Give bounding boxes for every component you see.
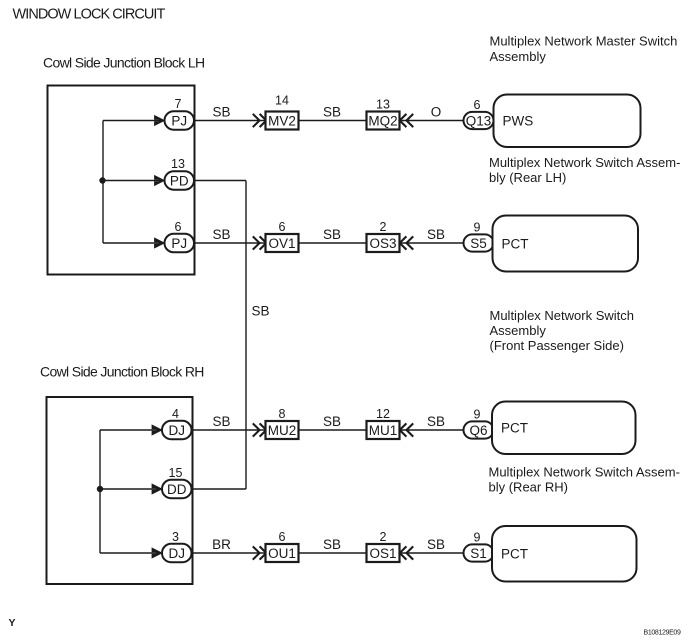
svg-text:14: 14 (275, 94, 289, 108)
junction block RH outline (47, 397, 193, 584)
svg-text:Multiplex Network Master Switc: Multiplex Network Master Switch (490, 34, 678, 49)
svg-text:PD: PD (170, 173, 189, 188)
label: Multiplex Network Switch Assembly (Rear RH) (489, 464, 680, 494)
wire: row 7 segment between inline connectors (299, 120, 367, 122)
wire: LH internal vertical bus (102, 121, 104, 244)
svg-text:Q6: Q6 (469, 423, 487, 438)
svg-text:SB: SB (212, 105, 230, 120)
wire: PD13 to DD15 vertical run (245, 181, 247, 490)
node: RH bus junction dot (97, 486, 103, 492)
wire: PD13 to DD15 horizontal (lower) (193, 488, 247, 490)
wire: row 3 segment oval to first inline connector (191, 552, 266, 554)
connector chevrons into MV2 (253, 114, 266, 127)
wire: RH stub to DJ pin 4 (100, 429, 158, 431)
connector DD pin 15 (junction block cavity) (162, 466, 192, 499)
svg-text:OV1: OV1 (268, 236, 295, 251)
svg-text:13: 13 (376, 98, 390, 112)
connector OS1 pin 2 (367, 530, 400, 562)
svg-text:PCT: PCT (502, 236, 529, 251)
svg-text:S1: S1 (470, 546, 487, 561)
device block PCT (492, 402, 636, 455)
wire: LH stub to PJ pin 7 (103, 120, 160, 122)
svg-text:S5: S5 (470, 236, 487, 251)
connector arrow into PJ pin 6 (154, 237, 165, 248)
svg-text:15: 15 (169, 466, 183, 480)
svg-text:WINDOW LOCK CIRCUIT: WINDOW LOCK CIRCUIT (13, 6, 166, 22)
connector arrow into DJ pin 4 (152, 424, 163, 435)
svg-text:bly (Rear RH): bly (Rear RH) (489, 479, 568, 494)
connector chevrons into OV1 (253, 236, 266, 249)
svg-text:OS1: OS1 (369, 546, 396, 561)
wire: PD13 to DD15 horizontal (upper) (193, 180, 246, 182)
svg-text:MU1: MU1 (369, 423, 398, 438)
device block PWS (494, 95, 641, 148)
connector MV2 pin 14 (266, 94, 299, 130)
wire: RH stub to DJ pin 3 (100, 552, 158, 554)
junction block LH outline (48, 86, 195, 275)
connector chevrons out of MU1 (400, 423, 414, 436)
device block PCT (493, 216, 639, 272)
svg-text:SB: SB (323, 227, 341, 242)
svg-text:6: 6 (175, 220, 182, 234)
svg-text:MQ2: MQ2 (368, 113, 397, 128)
node: LH bus junction dot (99, 177, 105, 183)
svg-text:9: 9 (474, 530, 481, 544)
connector DJ pin 3 (junction block cavity) (162, 530, 192, 563)
connector MU1 pin 12 (367, 407, 400, 439)
wire: row 6 segment to device pin (400, 242, 465, 244)
svg-text:SB: SB (212, 227, 230, 242)
connector arrow into PD pin 13 (154, 175, 165, 186)
wire: row 7 segment oval to first inline connector (193, 120, 266, 122)
svg-text:PCT: PCT (501, 421, 528, 436)
svg-text:DD: DD (167, 482, 187, 497)
svg-text:MV2: MV2 (268, 113, 296, 128)
svg-text:DJ: DJ (169, 423, 186, 438)
connector PJ pin 7 (junction block cavity) (165, 97, 195, 130)
svg-text:PJ: PJ (171, 236, 187, 251)
svg-text:SB: SB (323, 414, 341, 429)
svg-text:Y: Y (9, 617, 16, 629)
connector arrow into PJ pin 7 (154, 115, 165, 126)
connector PJ pin 6 (junction block cavity) (165, 220, 195, 253)
svg-text:7: 7 (175, 97, 182, 111)
svg-text:bly (Rear LH): bly (Rear LH) (489, 170, 566, 185)
svg-text:2: 2 (380, 220, 387, 234)
svg-text:SB: SB (212, 414, 230, 429)
svg-text:SB: SB (427, 414, 445, 429)
svg-text:4: 4 (172, 407, 179, 421)
wire: row 6 segment oval to first inline connector (193, 242, 266, 244)
svg-text:2: 2 (380, 530, 387, 544)
connector Q13 pin 6 (device cavity) (464, 98, 494, 129)
svg-text:SB: SB (427, 227, 445, 242)
svg-text:Multiplex Network Switch Assem: Multiplex Network Switch Assem- (489, 155, 680, 170)
wire: LH stub to PJ pin 6 (103, 242, 160, 244)
svg-text:SB: SB (252, 304, 270, 319)
svg-text:B108129E09: B108129E09 (644, 629, 681, 636)
connector PD pin 13 (junction block cavity) (165, 157, 195, 190)
svg-text:Multiplex Network Switch Assem: Multiplex Network Switch Assem- (489, 464, 680, 479)
connector chevrons into OU1 (253, 546, 266, 559)
connector arrow into DJ pin 3 (152, 547, 163, 558)
svg-text:DJ: DJ (169, 546, 186, 561)
connector arrow into DD pin 15 (152, 483, 163, 494)
connector chevrons out of OS3 (400, 236, 414, 249)
svg-text:6: 6 (279, 530, 286, 544)
wire: row 3 segment to device pin (400, 552, 465, 554)
svg-text:PWS: PWS (503, 114, 534, 129)
svg-text:Assembly: Assembly (490, 323, 547, 338)
connector OS3 pin 2 (367, 220, 400, 252)
svg-text:Q13: Q13 (466, 113, 492, 128)
svg-text:PCT: PCT (501, 547, 528, 562)
wire: row 7 segment to device pin (400, 120, 465, 122)
connector S1 pin 9 (device cavity) (464, 530, 494, 561)
wire: row 4 segment oval to first inline connector (191, 429, 266, 431)
svg-text:3: 3 (172, 530, 179, 544)
device block PCT (492, 526, 637, 582)
svg-text:13: 13 (171, 157, 185, 171)
svg-text:6: 6 (474, 98, 481, 112)
wire: row 4 segment to device pin (400, 429, 465, 431)
svg-text:SB: SB (323, 537, 341, 552)
svg-text:PJ: PJ (171, 113, 187, 128)
connector chevrons into MU2 (253, 423, 266, 436)
svg-text:BR: BR (212, 537, 231, 552)
connector OU1 pin 6 (266, 530, 299, 562)
wire: row 3 segment between inline connectors (299, 552, 367, 554)
svg-text:Cowl Side Junction Block RH: Cowl Side Junction Block RH (40, 364, 204, 380)
connector OV1 pin 6 (266, 220, 299, 252)
wire: row 4 segment between inline connectors (299, 429, 367, 431)
svg-text:OU1: OU1 (268, 546, 296, 561)
wire: LH stub to PD pin 13 (103, 180, 160, 182)
connector S5 pin 9 (device cavity) (464, 220, 494, 251)
svg-text:8: 8 (279, 407, 286, 421)
connector chevrons out of OS1 (400, 546, 414, 559)
svg-text:(Front Passenger Side): (Front Passenger Side) (490, 338, 624, 353)
svg-text:SB: SB (427, 537, 445, 552)
wire: RH internal vertical bus (99, 430, 101, 553)
connector chevrons out of MQ2 (400, 114, 414, 127)
svg-text:Cowl Side Junction Block LH: Cowl Side Junction Block LH (43, 55, 204, 71)
svg-text:12: 12 (376, 407, 390, 421)
svg-text:MU2: MU2 (268, 423, 297, 438)
svg-text:Assembly: Assembly (490, 49, 547, 64)
connector DJ pin 4 (junction block cavity) (162, 407, 192, 440)
connector MU2 pin 8 (266, 407, 299, 439)
label: Multiplex Network Switch Assembly (Front Passenger Side) (490, 308, 635, 353)
svg-text:OS3: OS3 (369, 236, 396, 251)
svg-text:Multiplex Network Switch: Multiplex Network Switch (490, 308, 635, 323)
svg-text:9: 9 (474, 220, 481, 234)
label: Multiplex Network Master Switch Assembly (490, 34, 678, 64)
wire: row 6 segment between inline connectors (299, 242, 367, 244)
label: Multiplex Network Switch Assembly (Rear LH) (489, 155, 680, 185)
wire: RH stub to DD pin 15 (100, 488, 158, 490)
svg-text:6: 6 (279, 220, 286, 234)
svg-text:O: O (431, 105, 442, 120)
svg-text:SB: SB (323, 105, 341, 120)
connector Q6 pin 9 (device cavity) (464, 407, 494, 438)
connector MQ2 pin 13 (367, 98, 400, 130)
svg-text:9: 9 (474, 407, 481, 421)
